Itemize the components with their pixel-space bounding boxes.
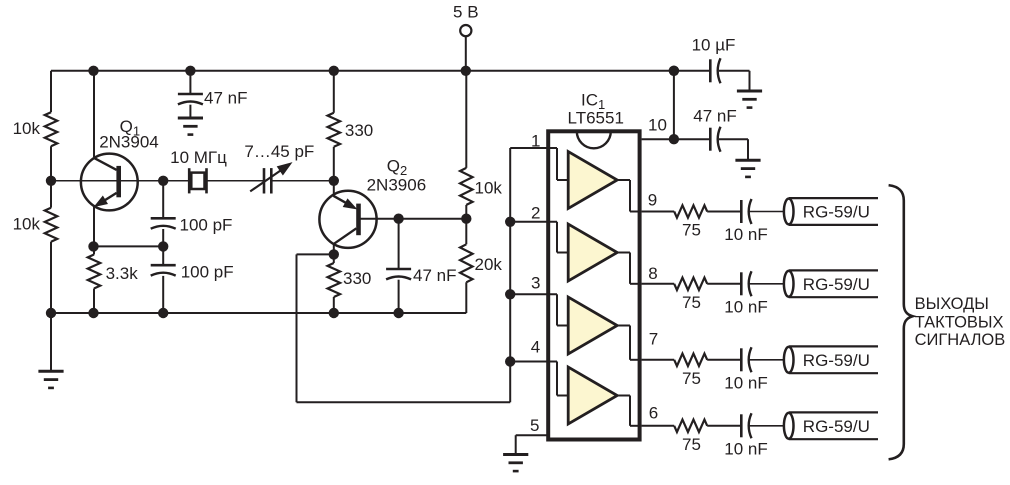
svg-text:2N3906: 2N3906 <box>367 176 427 195</box>
svg-text:5: 5 <box>530 416 539 435</box>
svg-text:75: 75 <box>682 221 701 240</box>
svg-text:1: 1 <box>531 131 540 150</box>
svg-text:10k: 10k <box>475 179 503 198</box>
svg-text:10k: 10k <box>13 215 41 234</box>
svg-text:RG-59/U: RG-59/U <box>803 417 870 436</box>
svg-text:3: 3 <box>531 274 540 293</box>
svg-text:47 nF: 47 nF <box>204 89 247 108</box>
svg-text:2: 2 <box>531 204 540 223</box>
svg-text:RG-59/U: RG-59/U <box>803 275 870 294</box>
svg-text:6: 6 <box>649 404 658 423</box>
svg-text:10 µF: 10 µF <box>692 36 736 55</box>
svg-text:LT6551: LT6551 <box>568 109 624 128</box>
svg-text:47 nF: 47 nF <box>413 266 456 285</box>
svg-text:10 nF: 10 nF <box>724 439 767 458</box>
svg-text:10 nF: 10 nF <box>724 373 767 392</box>
svg-text:8: 8 <box>648 264 657 283</box>
svg-text:4: 4 <box>531 338 540 357</box>
svg-text:330: 330 <box>345 121 373 140</box>
svg-text:10: 10 <box>648 116 667 135</box>
svg-text:3.3k: 3.3k <box>106 264 139 283</box>
svg-text:7: 7 <box>649 330 658 349</box>
svg-text:20k: 20k <box>475 255 503 274</box>
svg-text:ТАКТОВЫХ: ТАКТОВЫХ <box>915 313 1004 331</box>
svg-text:10k: 10k <box>13 119 41 138</box>
svg-text:5 В: 5 В <box>453 3 479 22</box>
svg-text:2N3904: 2N3904 <box>99 133 159 152</box>
svg-text:330: 330 <box>343 269 371 288</box>
svg-text:100 pF: 100 pF <box>180 215 233 234</box>
svg-text:RG-59/U: RG-59/U <box>803 351 870 370</box>
svg-text:ВЫХОДЫ: ВЫХОДЫ <box>915 295 989 313</box>
svg-text:9: 9 <box>648 191 657 210</box>
svg-text:7…45 pF: 7…45 pF <box>244 142 314 161</box>
svg-text:75: 75 <box>682 369 701 388</box>
svg-text:10 nF: 10 nF <box>724 225 767 244</box>
svg-text:RG-59/U: RG-59/U <box>803 203 870 222</box>
svg-text:47 nF: 47 nF <box>693 107 736 126</box>
svg-text:75: 75 <box>682 435 701 454</box>
svg-text:100 pF: 100 pF <box>181 262 234 281</box>
svg-text:СИГНАЛОВ: СИГНАЛОВ <box>915 331 1006 349</box>
svg-text:10 nF: 10 nF <box>724 297 767 316</box>
svg-text:10 МГц: 10 МГц <box>170 148 227 167</box>
svg-text:75: 75 <box>682 293 701 312</box>
